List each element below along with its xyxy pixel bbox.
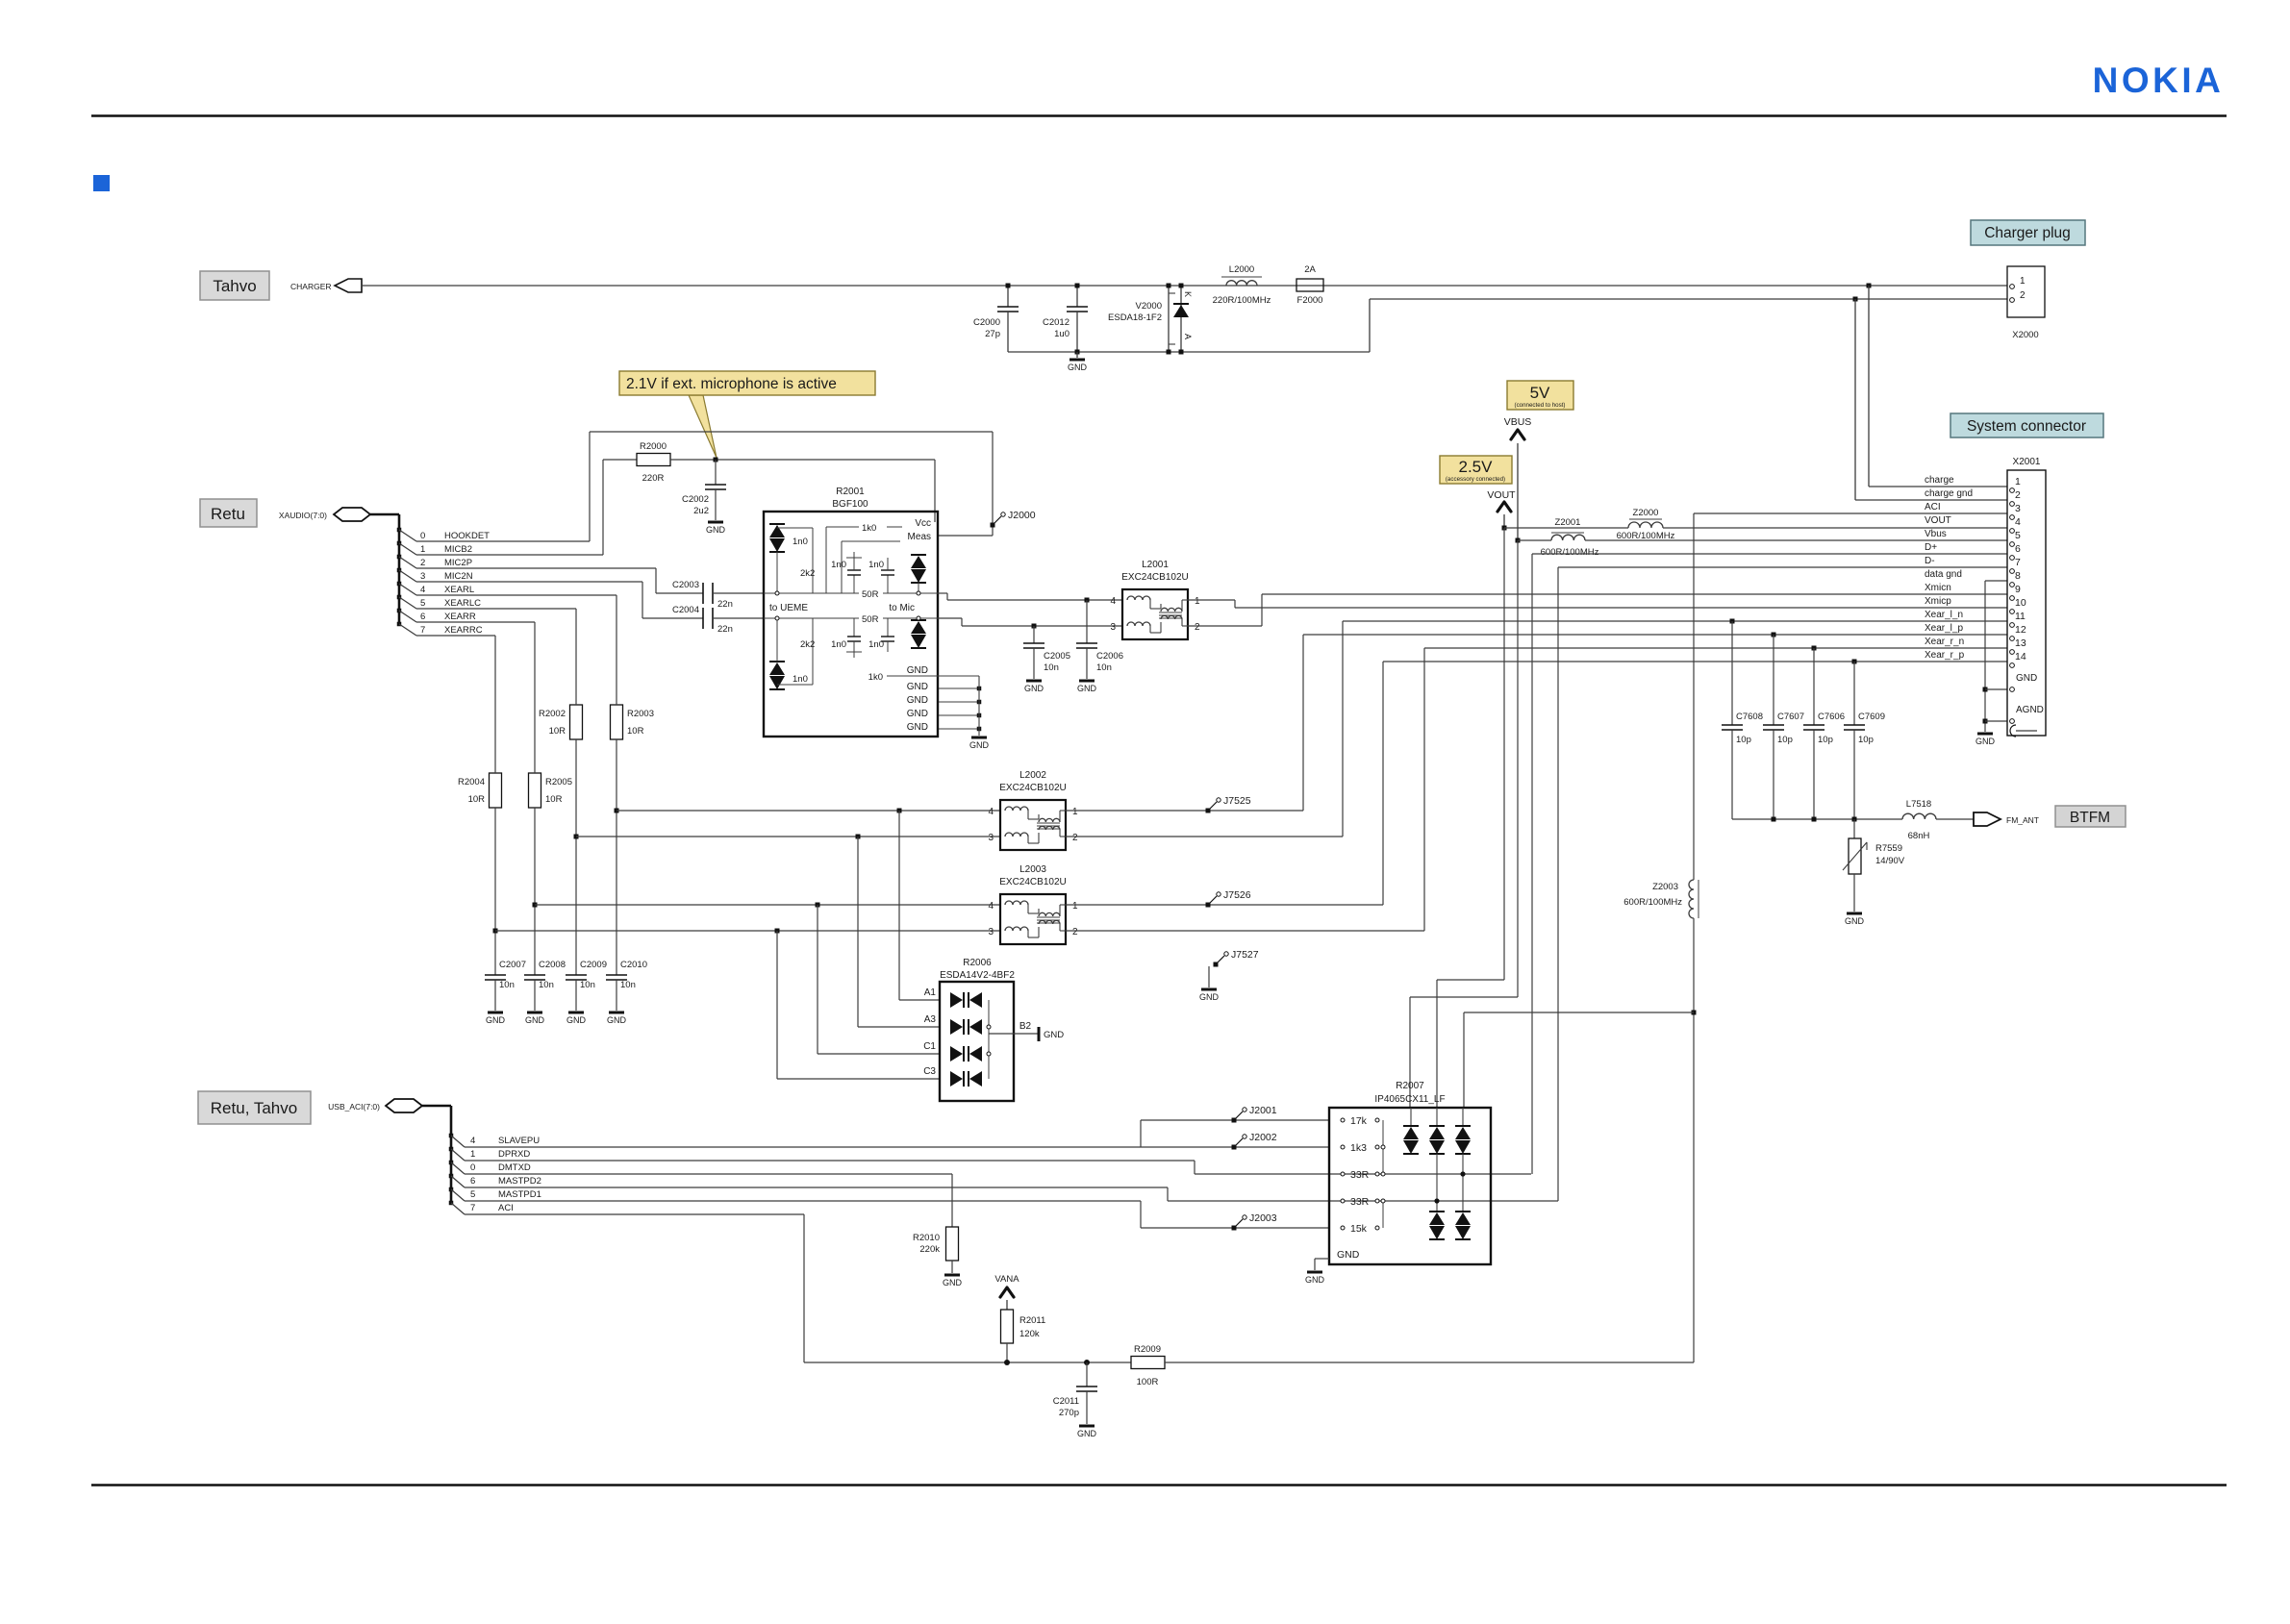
capacitor C2002 2u2 <box>715 460 717 485</box>
svg-text:R7559: R7559 <box>1875 843 1902 854</box>
svg-text:GND: GND <box>943 1278 963 1287</box>
wire FM antenna row <box>1732 818 1902 820</box>
svg-text:C2005: C2005 <box>1044 651 1070 662</box>
svg-text:10p: 10p <box>1777 735 1793 745</box>
capacitor C2012 <box>1076 286 1078 307</box>
svg-text:1: 1 <box>1072 807 1078 817</box>
junction charge <box>1867 284 1872 288</box>
bus tap XEARRC <box>397 622 402 627</box>
svg-text:BGF100: BGF100 <box>832 499 868 510</box>
svg-text:3: 3 <box>988 833 994 843</box>
svg-text:10p: 10p <box>1818 735 1833 745</box>
svg-text:100R: 100R <box>1137 1377 1159 1387</box>
svg-text:600R/100MHz: 600R/100MHz <box>1541 547 1599 558</box>
svg-text:C3: C3 <box>923 1066 936 1077</box>
resistor R2000 220R <box>637 454 670 466</box>
wire 33R row lower <box>1168 1200 1558 1202</box>
svg-text:X2000: X2000 <box>2012 330 2038 340</box>
capacitor C2000 <box>1007 286 1009 307</box>
svg-text:1: 1 <box>2020 276 2026 287</box>
capacitor C7606 10p <box>1812 646 1817 651</box>
svg-text:EXC24CB102U: EXC24CB102U <box>999 783 1066 793</box>
svg-text:12: 12 <box>2015 624 2026 636</box>
wire XEARR <box>416 621 535 623</box>
svg-text:10n: 10n <box>539 980 554 990</box>
test point J7525 <box>1206 809 1211 813</box>
svg-text:6: 6 <box>2015 543 2021 555</box>
svg-text:Z2001: Z2001 <box>1555 517 1581 528</box>
svg-text:220R/100MHz: 220R/100MHz <box>1213 295 1271 306</box>
wire D+ drop <box>1531 554 1533 1174</box>
svg-text:2: 2 <box>420 558 425 568</box>
svg-text:C2011: C2011 <box>1053 1396 1079 1407</box>
svg-text:BTFM: BTFM <box>2070 810 2110 826</box>
svg-text:2: 2 <box>2020 290 2026 301</box>
svg-text:IP4065CX11_LF: IP4065CX11_LF <box>1374 1094 1445 1105</box>
svg-text:GND: GND <box>1845 916 1865 926</box>
resistor R2011 120k <box>1001 1310 1014 1343</box>
svg-text:HOOKDET: HOOKDET <box>444 531 490 541</box>
svg-text:10R: 10R <box>468 794 486 805</box>
wire charge gnd to pin2 <box>1854 299 1856 500</box>
capacitor C2010 10n <box>606 974 627 976</box>
svg-text:1k0: 1k0 <box>868 672 883 683</box>
bus tap DPRXD <box>449 1147 454 1152</box>
svg-text:7: 7 <box>420 625 425 636</box>
note 2.5V accessory connected <box>1440 456 1512 484</box>
svg-text:GND: GND <box>1068 362 1088 372</box>
wire MIC2N jog <box>642 582 643 618</box>
junction charge gnd <box>1853 297 1858 302</box>
svg-text:600R/100MHz: 600R/100MHz <box>1617 531 1675 541</box>
wire XEARLC <box>416 608 576 610</box>
svg-text:EXC24CB102U: EXC24CB102U <box>999 877 1066 887</box>
ground below C2010 <box>609 1012 624 1014</box>
wire Xear_r_n row <box>535 904 1000 906</box>
svg-text:8: 8 <box>2015 570 2021 582</box>
wire Xear_l_p to pin12 <box>1303 634 2007 636</box>
bus tap XEARR <box>397 609 402 613</box>
svg-text:C2007: C2007 <box>499 960 526 970</box>
svg-text:Tahvo: Tahvo <box>213 277 256 295</box>
svg-text:J7526: J7526 <box>1223 889 1251 901</box>
svg-text:System connector: System connector <box>1967 418 2086 435</box>
svg-text:22n: 22n <box>717 599 733 610</box>
wire MASTPD2 <box>465 1187 1168 1188</box>
svg-text:L7518: L7518 <box>1906 799 1931 810</box>
svg-text:10n: 10n <box>580 980 595 990</box>
bus tap MASTPD2 <box>449 1174 454 1179</box>
wire AGND pin row <box>1985 720 2007 722</box>
svg-text:220k: 220k <box>919 1244 940 1255</box>
svg-text:5: 5 <box>420 598 425 609</box>
svg-text:68nH: 68nH <box>1908 831 1930 841</box>
svg-text:11: 11 <box>2015 611 2026 622</box>
svg-text:GND: GND <box>1077 684 1097 693</box>
wire XEARRC <box>416 635 495 637</box>
svg-text:C2000: C2000 <box>973 317 1000 328</box>
svg-text:17k: 17k <box>1350 1115 1368 1127</box>
svg-text:charge: charge <box>1925 475 1954 486</box>
svg-text:R2009: R2009 <box>1134 1344 1161 1355</box>
svg-text:0: 0 <box>420 531 425 541</box>
svg-text:5V: 5V <box>1530 384 1550 402</box>
svg-text:C2004: C2004 <box>672 605 699 615</box>
svg-text:USB_ACI(7:0): USB_ACI(7:0) <box>328 1102 380 1112</box>
wire XEARLC chain <box>575 609 577 705</box>
svg-text:DMTXD: DMTXD <box>498 1162 531 1173</box>
capacitor C2003 22n <box>702 583 704 604</box>
wire L2003 pin2 out <box>1066 930 1424 932</box>
svg-text:J2000: J2000 <box>1008 510 1036 521</box>
capacitor C2009 10n <box>566 974 587 976</box>
test point J2000 <box>991 523 995 528</box>
svg-text:XEARR: XEARR <box>444 612 476 622</box>
wire Xmicn from L2001 pin2 <box>1187 625 1262 627</box>
svg-text:600R/100MHz: 600R/100MHz <box>1623 897 1682 908</box>
wire HOOKDET <box>416 540 590 542</box>
wire XEARL chain <box>616 595 617 705</box>
svg-text:ESDA14V2-4BF2: ESDA14V2-4BF2 <box>940 970 1015 981</box>
capacitor C2008 10n <box>524 974 545 976</box>
svg-text:R2000: R2000 <box>640 441 667 452</box>
bus tap ACI <box>449 1201 454 1206</box>
wire VBUS drop <box>1517 540 1519 997</box>
svg-text:1: 1 <box>470 1149 475 1160</box>
svg-text:data gnd: data gnd <box>1925 569 1962 580</box>
svg-text:C2008: C2008 <box>539 960 566 970</box>
svg-text:10R: 10R <box>545 794 563 805</box>
svg-text:J2002: J2002 <box>1249 1132 1277 1143</box>
svg-text:Xear_l_p: Xear_l_p <box>1925 623 1963 634</box>
svg-text:to UEME: to UEME <box>769 603 808 613</box>
wire Xear_r_n to pin13 <box>1424 647 2007 649</box>
resistor R2009 100R <box>1131 1357 1165 1369</box>
svg-text:1k3: 1k3 <box>1350 1142 1367 1154</box>
ground below J7527 <box>1201 988 1217 991</box>
svg-text:10: 10 <box>2015 597 2026 609</box>
svg-text:GND: GND <box>1337 1249 1360 1261</box>
svg-text:220R: 220R <box>642 473 665 484</box>
svg-text:(accessory connected): (accessory connected) <box>1446 476 1505 483</box>
svg-text:GND: GND <box>907 665 928 676</box>
svg-text:9: 9 <box>2015 584 2021 595</box>
svg-text:2.1V if ext. microphone is act: 2.1V if ext. microphone is active <box>626 376 837 392</box>
test point J2002 <box>1232 1145 1237 1150</box>
svg-text:NOKIA: NOKIA <box>2093 61 2225 100</box>
svg-text:MIC2N: MIC2N <box>444 571 473 582</box>
svg-text:1u0: 1u0 <box>1054 329 1070 339</box>
wire Xear_r_p row <box>495 930 1000 932</box>
wire ACI to pin3 <box>1694 512 2007 514</box>
svg-text:10p: 10p <box>1736 735 1751 745</box>
svg-text:GND: GND <box>1044 1030 1064 1040</box>
svg-text:0: 0 <box>470 1162 475 1173</box>
bus tap MIC2P <box>397 555 402 560</box>
ground below R2001 <box>971 737 987 739</box>
svg-text:GND: GND <box>1024 684 1044 693</box>
wire charger bottom rail <box>1008 351 1370 353</box>
svg-text:R2011: R2011 <box>1019 1315 1045 1326</box>
wire MIC2N <box>416 581 642 583</box>
svg-text:F2000: F2000 <box>1297 295 1323 306</box>
System connector label <box>1950 413 2103 437</box>
svg-text:1: 1 <box>420 544 425 555</box>
svg-text:15k: 15k <box>1350 1223 1368 1235</box>
svg-text:CHARGER: CHARGER <box>290 282 332 291</box>
svg-text:GND: GND <box>969 740 990 750</box>
wire charger top <box>362 285 2007 287</box>
capacitor C7607 10p <box>1772 633 1776 637</box>
wire C1 drop <box>817 905 818 1054</box>
svg-text:DPRXD: DPRXD <box>498 1149 530 1160</box>
R2007 GND pin <box>1315 1258 1329 1260</box>
svg-text:2u2: 2u2 <box>693 506 709 516</box>
capacitor C2007 10n <box>485 974 506 976</box>
svg-text:4: 4 <box>988 901 994 912</box>
svg-text:VBUS: VBUS <box>1504 416 1532 428</box>
svg-text:C7607: C7607 <box>1777 712 1804 722</box>
svg-text:R2006: R2006 <box>963 958 992 968</box>
svg-text:SLAVEPU: SLAVEPU <box>498 1136 540 1146</box>
svg-text:C2003: C2003 <box>672 580 699 590</box>
svg-text:MICB2: MICB2 <box>444 544 472 555</box>
svg-text:VANA: VANA <box>994 1274 1019 1285</box>
svg-text:1n0: 1n0 <box>831 560 846 570</box>
svg-text:4: 4 <box>988 807 994 817</box>
wire GND pin row <box>1985 688 2007 690</box>
wire MICB2 <box>416 554 603 556</box>
svg-text:2: 2 <box>2015 489 2021 501</box>
svg-text:5: 5 <box>470 1189 475 1200</box>
wire data gnd stub pin8 <box>1985 580 2007 582</box>
svg-text:Xear_r_n: Xear_r_n <box>1925 637 1964 647</box>
BTFM box <box>2055 806 2126 827</box>
ground below C2002 <box>708 521 723 524</box>
blue section square <box>93 175 110 191</box>
svg-text:Charger plug: Charger plug <box>1984 225 2071 241</box>
svg-text:FM_ANT: FM_ANT <box>2006 815 2039 825</box>
resistor R2003 10R <box>611 705 623 739</box>
svg-text:C2010: C2010 <box>620 960 647 970</box>
svg-text:Xear_r_p: Xear_r_p <box>1925 650 1965 661</box>
svg-text:L2002: L2002 <box>1019 770 1046 781</box>
bus tap DMTXD <box>449 1161 454 1165</box>
wire to R2001 Vcc <box>934 460 936 522</box>
svg-text:2k2: 2k2 <box>800 568 815 579</box>
wire HOOKDET to J2000/Meas <box>589 432 591 541</box>
Charger plug label <box>1971 220 2085 245</box>
Tahvo box <box>200 271 269 300</box>
svg-text:C2012: C2012 <box>1043 317 1070 328</box>
svg-text:ACI: ACI <box>1925 502 1941 512</box>
svg-text:GND: GND <box>706 525 726 535</box>
svg-text:J7527: J7527 <box>1231 949 1259 961</box>
svg-text:GND: GND <box>907 695 928 706</box>
wire UEME row jogs <box>938 592 947 594</box>
svg-text:13: 13 <box>2015 637 2026 649</box>
svg-text:GND: GND <box>1975 737 1996 746</box>
svg-text:2k2: 2k2 <box>800 639 815 650</box>
svg-text:R2001: R2001 <box>836 487 865 497</box>
svg-text:C2009: C2009 <box>580 960 607 970</box>
svg-text:Vbus: Vbus <box>1925 529 1947 539</box>
svg-text:GND: GND <box>607 1015 627 1025</box>
svg-text:3: 3 <box>2015 503 2021 514</box>
capacitor C2006 10n <box>1085 598 1090 603</box>
capacitor C2004 22n <box>702 608 704 629</box>
svg-text:10R: 10R <box>549 726 566 737</box>
wire Xmicp from L2001 pin1 <box>1187 599 1235 601</box>
ground below C2007 <box>488 1012 503 1014</box>
svg-text:2: 2 <box>1195 622 1200 633</box>
svg-text:V2000: V2000 <box>1136 301 1162 312</box>
svg-text:(connected to host): (connected to host) <box>1515 402 1566 409</box>
svg-text:Z2003: Z2003 <box>1652 882 1678 892</box>
ground at B2 <box>1038 1027 1041 1041</box>
svg-text:3: 3 <box>988 927 994 937</box>
svg-text:AGND: AGND <box>2016 705 2044 715</box>
wire J2003 row <box>1141 1227 1329 1229</box>
svg-text:14: 14 <box>2015 651 2026 662</box>
capacitor C2005 10n <box>1032 624 1037 629</box>
svg-text:ESDA18-1F2: ESDA18-1F2 <box>1108 312 1162 323</box>
svg-text:7: 7 <box>2015 557 2021 568</box>
svg-text:XAUDIO(7:0): XAUDIO(7:0) <box>279 511 327 520</box>
svg-text:GND: GND <box>525 1015 545 1025</box>
wire ACI riser <box>1693 513 1695 880</box>
wire 33R row upper <box>1195 1173 1531 1175</box>
wire ACI bottom <box>804 1362 1131 1363</box>
svg-text:GND: GND <box>486 1015 506 1025</box>
svg-text:A1: A1 <box>924 987 937 998</box>
svg-text:10n: 10n <box>499 980 515 990</box>
svg-text:Vcc: Vcc <box>915 518 931 529</box>
svg-text:1: 1 <box>1195 596 1200 607</box>
FM_ANT output arrow <box>1974 812 2001 826</box>
capacitor C7609 10p <box>1852 660 1857 664</box>
svg-text:10R: 10R <box>627 726 644 737</box>
Retu, Tahvo box <box>198 1091 311 1124</box>
svg-text:K: K <box>1183 291 1193 297</box>
svg-text:L2001: L2001 <box>1142 560 1169 570</box>
svg-text:GND: GND <box>907 682 928 692</box>
svg-text:6: 6 <box>420 612 425 622</box>
svg-text:1n0: 1n0 <box>868 560 884 570</box>
bottom rule <box>91 1484 2227 1487</box>
top rule <box>91 114 2227 117</box>
resistor R2004 10R <box>490 773 502 808</box>
wire L2002 pin2 out <box>1066 836 1343 837</box>
wire Xear_r_p to pin14 <box>1383 661 2007 662</box>
svg-text:50R: 50R <box>862 614 879 625</box>
svg-text:10p: 10p <box>1858 735 1874 745</box>
svg-text:14/90V: 14/90V <box>1875 856 1905 866</box>
svg-text:1n0: 1n0 <box>793 674 808 685</box>
ground below R2007 <box>1307 1271 1322 1274</box>
svg-text:GND: GND <box>1305 1275 1325 1285</box>
wire MIC2P jog <box>655 568 657 593</box>
note 5V connected to host <box>1507 381 1573 410</box>
capacitor C7608 10p <box>1730 619 1735 624</box>
svg-text:4: 4 <box>420 585 425 595</box>
wire L2003 pin1 out <box>1066 904 1383 906</box>
svg-text:3: 3 <box>420 571 425 582</box>
wire SLAVEPU <box>465 1146 1234 1148</box>
wire D- drop <box>1557 567 1559 1201</box>
svg-text:C7606: C7606 <box>1818 712 1845 722</box>
svg-text:270p: 270p <box>1059 1408 1079 1418</box>
svg-text:3: 3 <box>1110 622 1116 633</box>
ground below R2010 <box>944 1274 960 1277</box>
ground below C2008 <box>527 1012 542 1014</box>
svg-text:7: 7 <box>470 1203 475 1213</box>
svg-text:X2001: X2001 <box>2013 457 2041 467</box>
svg-text:R2003: R2003 <box>627 709 654 719</box>
svg-text:GND: GND <box>2016 673 2037 684</box>
bus tap SLAVEPU <box>449 1134 454 1138</box>
svg-text:J7525: J7525 <box>1223 795 1251 807</box>
svg-text:1n0: 1n0 <box>868 639 884 650</box>
svg-text:Xmicp: Xmicp <box>1925 596 1951 607</box>
wire MIC2P <box>416 567 656 569</box>
svg-text:27p: 27p <box>985 329 1000 339</box>
svg-text:C2006: C2006 <box>1096 651 1123 662</box>
svg-text:10n: 10n <box>1044 662 1059 673</box>
svg-text:GND: GND <box>1199 992 1220 1002</box>
svg-text:J2001: J2001 <box>1249 1105 1277 1116</box>
wire D- to pin7 <box>1558 566 2007 568</box>
ground below R7559 <box>1847 912 1862 915</box>
note 2.1V if ext. microphone is active <box>689 395 717 458</box>
connector X2000 <box>2007 266 2045 317</box>
svg-text:B2: B2 <box>1019 1021 1032 1032</box>
svg-text:Z2000: Z2000 <box>1633 508 1659 518</box>
svg-text:2: 2 <box>1072 927 1078 937</box>
wire charge to pin1 <box>1868 286 1870 487</box>
svg-text:GND: GND <box>566 1015 587 1025</box>
wire charge-gnd return <box>1369 299 1371 352</box>
wire A1 drop <box>898 811 900 1000</box>
svg-text:R2004: R2004 <box>458 777 485 787</box>
svg-text:A: A <box>1183 334 1193 339</box>
svg-text:A3: A3 <box>924 1014 937 1025</box>
svg-text:Retu, Tahvo: Retu, Tahvo <box>211 1099 297 1117</box>
wire DPRXD <box>465 1160 1195 1162</box>
svg-text:10n: 10n <box>1096 662 1112 673</box>
svg-text:GND: GND <box>907 722 928 733</box>
svg-text:XEARL: XEARL <box>444 585 474 595</box>
ground below C2011 <box>1079 1425 1095 1428</box>
wire ACI ESD branch <box>1464 1012 1694 1013</box>
transient suppressor V2000 ESDA18-1F2 <box>1168 286 1170 352</box>
wire L2002 pin1 out <box>1066 810 1303 812</box>
svg-text:Meas: Meas <box>908 532 931 542</box>
svg-text:Xear_l_n: Xear_l_n <box>1925 610 1963 620</box>
bus tap MIC2N <box>397 568 402 573</box>
svg-text:MASTPD2: MASTPD2 <box>498 1176 541 1187</box>
svg-text:1k0: 1k0 <box>862 523 876 534</box>
svg-text:XEARLC: XEARLC <box>444 598 481 609</box>
svg-text:VOUT: VOUT <box>1925 515 1951 526</box>
svg-text:R2010: R2010 <box>913 1233 940 1243</box>
R2007 ESD diode columns <box>1410 1108 1412 1126</box>
bus tap HOOKDET <box>397 528 402 533</box>
wire J2001 link <box>1140 1120 1142 1147</box>
svg-text:GND: GND <box>1077 1429 1097 1438</box>
test point J2001 <box>1232 1118 1237 1123</box>
resistor R2010 220k <box>951 1174 953 1227</box>
